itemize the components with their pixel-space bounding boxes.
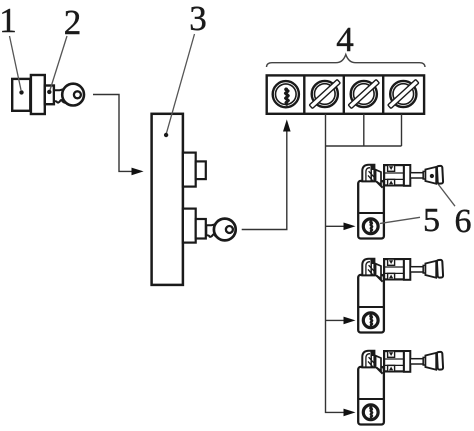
lock 3 upper sub-tab [196, 161, 206, 179]
switch lock assembly 2 [358, 259, 443, 333]
elbow inner wall [366, 168, 370, 182]
wedge plate [376, 170, 381, 185]
svg-text:3: 3 [189, 0, 207, 38]
feeder wire down [326, 146, 346, 412]
switch lock assembly 1 [358, 165, 443, 239]
bottom A box [388, 179, 395, 185]
lock cylinder 1: plug rectangle [45, 86, 54, 105]
lock 3 body [152, 114, 183, 285]
elbow stripe [370, 165, 372, 182]
branch wire to switch lock 1 [326, 225, 346, 227]
divider 2-3 [343, 75, 345, 113]
switch body [358, 181, 384, 239]
wire from key 2 up to cylinder row [242, 132, 287, 230]
arrowhead up into cell 1 [283, 119, 291, 131]
arrowhead into switch lock 1 [344, 223, 356, 231]
key 2 neck [206, 223, 219, 238]
divider 1-2 [303, 75, 305, 113]
wedge-to-block lower link [376, 181, 382, 187]
leader line to lock plug (label 2) [50, 36, 67, 90]
leader dot on plug [47, 90, 51, 94]
elbow conduit [362, 165, 374, 182]
elbow hatch [369, 171, 374, 177]
cylinder row outer frame [267, 75, 424, 113]
arrowhead into switch lock 3 [344, 409, 356, 417]
mounting flange [404, 165, 410, 186]
key 1 bow hole [74, 91, 81, 98]
keyway profile in cylinder 1 [286, 89, 289, 104]
lock 3 upper tab [183, 153, 196, 187]
stripe top plug [371, 165, 374, 170]
arrowhead into lock 3 [132, 168, 144, 176]
collector wire [326, 145, 402, 147]
key 1 neck [54, 87, 67, 103]
cam lock block [384, 165, 404, 185]
wire from key 1 to lock 3 [93, 95, 133, 172]
branch wire to switch lock 2 [326, 319, 346, 321]
key head bar [437, 166, 443, 184]
leader line to cylinder body (label 1) [10, 36, 22, 90]
block mid band [384, 172, 404, 174]
leader line to lock 3 [167, 34, 195, 133]
shaft [410, 173, 423, 178]
lock cylinder 1: middle flange rectangle [31, 75, 45, 114]
key bolster (trapezoid) [425, 167, 436, 184]
cylinder face 3 (rotated, slashed) [348, 79, 379, 108]
cylinder face ring [363, 219, 378, 234]
wire down from cell 3 [363, 114, 365, 146]
svg-text:6: 6 [455, 203, 472, 240]
leader dot on lock 3 [164, 133, 168, 137]
key 2 bow [214, 219, 236, 241]
divider 3-4 [382, 75, 384, 113]
arrowhead into switch lock 2 [344, 317, 356, 325]
svg-text:4: 4 [336, 20, 354, 59]
wire down from cell 2 [325, 114, 327, 146]
svg-text:1: 1 [0, 1, 17, 40]
switch lock assembly 3 [358, 351, 443, 425]
shaft step [423, 171, 425, 179]
curly brace over cylinder row [267, 55, 426, 68]
leader line from key bolster to label 6 [432, 176, 455, 206]
leader dot on cylinder body [19, 90, 23, 94]
leader line from face ring to label 5 [380, 217, 420, 223]
lock 3 lower tab [183, 209, 196, 243]
svg-text:5: 5 [423, 202, 440, 239]
leader dot on key bolster (label 6) [430, 174, 434, 178]
key 1 bow [62, 84, 84, 106]
lock cylinder 1: body left rectangle [12, 79, 30, 111]
wire down from cell 4 [401, 114, 403, 146]
keyway in face [371, 222, 372, 231]
lock 3 lower sub-tab [196, 219, 206, 239]
cylinder face 1 (keyway) outer ring [273, 81, 299, 107]
body divider [358, 212, 384, 214]
cylinder face 2 (rotated, slashed) [309, 79, 340, 108]
cylinder face 4 (rotated, slashed) [388, 79, 419, 108]
key 2 bow hole [226, 226, 233, 233]
top V box [388, 165, 395, 171]
